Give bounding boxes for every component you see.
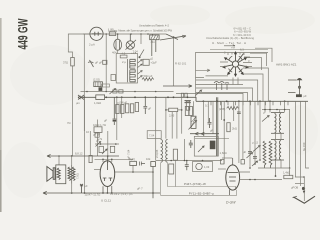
svg-text:1,05 geg. Masse, alle Spannung: 1,05 geg. Masse, alle Spannungen gem. n.… xyxy=(108,29,172,33)
capacitor dark dashes under bus xyxy=(185,101,191,103)
capacitor pair CL1 xyxy=(99,146,103,152)
resistor small right of V2 top xyxy=(241,160,245,165)
resistor R1 on top wire xyxy=(109,32,115,36)
resistor R19 zigzag xyxy=(227,106,239,109)
dense centre column x187-196 xyxy=(186,101,189,110)
wire main top H1 xyxy=(83,33,166,35)
capacitor C3 electrolytic blob xyxy=(296,94,302,97)
svg-text:37Ω: 37Ω xyxy=(63,61,68,65)
wire drops into tube xyxy=(103,156,112,162)
svg-text:µPOB: µPOB xyxy=(291,186,298,190)
wire x216.9 dark pair xyxy=(216,97,217,156)
wire x233.7 stub xyxy=(233,101,235,121)
wire left arrow y156 xyxy=(47,155,119,158)
capacitor C2 tilted xyxy=(88,60,94,67)
svg-text:µF: µF xyxy=(104,119,108,123)
wire x250 xyxy=(249,101,251,168)
coil L2 square bumps upper xyxy=(130,59,135,68)
svg-text:P447–(0743)–W: P447–(0743)–W xyxy=(184,182,206,186)
svg-text:4,5: 4,5 xyxy=(122,52,126,56)
resistor R2 hatched xyxy=(150,34,159,56)
svg-text:µF·7: µF·7 xyxy=(137,187,143,191)
svg-text:7,0Ω: 7,0Ω xyxy=(76,173,80,179)
paper mottling xyxy=(3,5,318,198)
wire pin stubs socket bottom xyxy=(233,78,238,85)
node dots above tube xyxy=(102,155,112,160)
svg-text:+2µF: +2µF xyxy=(151,61,158,65)
speaker LS cone xyxy=(47,167,55,182)
resistor R29 small on bus xyxy=(185,93,187,97)
svg-text:µF µF: µF µF xyxy=(95,61,102,65)
wire x238.9 xyxy=(238,101,240,163)
svg-text:µ(04)µF: µ(04)µF xyxy=(118,100,128,104)
wire x107.8 down xyxy=(107,131,109,163)
capacitor C17 on x238.9 xyxy=(237,112,241,114)
capacitor C11 xyxy=(185,161,189,170)
electrode symbols under socket xyxy=(214,82,229,91)
electrolytic blob C10 xyxy=(210,141,216,150)
switch S1 diagonals xyxy=(139,50,144,58)
capacitor C7 electrolytic xyxy=(80,184,83,193)
svg-text:2kΩ: 2kΩ xyxy=(232,127,237,131)
svg-text:2·µA: 2·µA xyxy=(89,43,95,47)
resistor small left of V2 top xyxy=(221,160,225,165)
svg-text:U CL11: U CL11 xyxy=(101,199,111,203)
svg-text:449 GW: 449 GW xyxy=(17,18,31,49)
wire y168 xyxy=(239,168,304,180)
junction dots right column xyxy=(249,159,290,177)
wire x203.4 xyxy=(202,101,204,136)
wire R3 down leg xyxy=(72,66,74,156)
resistor R18 small xyxy=(89,155,92,162)
wire vertical x84 xyxy=(83,34,85,97)
wire x213 xyxy=(212,101,214,133)
wire transformer to bus xyxy=(71,184,73,194)
field coil zigzag inside xyxy=(57,168,60,180)
wire x59 to speaker box xyxy=(58,156,60,165)
wire T3 secondary down xyxy=(276,160,282,176)
wire row y160 xyxy=(156,160,222,162)
trimmer arrows right column xyxy=(247,153,258,167)
zigzag R23 pair vertical xyxy=(263,141,272,168)
wire right frame x243 xyxy=(242,101,244,160)
wire V1 anode right xyxy=(115,166,153,173)
resistor R25 tiny on wire xyxy=(113,90,117,93)
wire underline arrow xyxy=(224,45,235,46)
wire x116.8 down xyxy=(116,97,118,140)
svg-text:2·µ: 2·µ xyxy=(122,60,126,64)
svg-text:D·GW: D·GW xyxy=(226,200,236,204)
transformer T4 windings xyxy=(68,167,71,181)
wire x304 down xyxy=(303,177,305,201)
wire x155.7 down xyxy=(155,97,157,160)
wire tick stubs below bus B xyxy=(211,101,288,105)
capacitor C6 xyxy=(208,118,212,128)
trimmer arrow in box xyxy=(198,146,204,152)
svg-text:(256): (256) xyxy=(219,107,225,111)
wire x193.5 xyxy=(193,101,195,116)
svg-text:AW1·BW1·AZ1: AW1·BW1·AZ1 xyxy=(276,63,297,67)
wire vertical x106 xyxy=(105,34,107,91)
svg-text:(2,02): (2,02) xyxy=(93,78,100,82)
wire x224 to tube xyxy=(223,160,225,164)
wire x172.2 down xyxy=(171,112,173,139)
capacitor C12 small box xyxy=(103,60,107,64)
junction y193 xyxy=(71,192,73,194)
node dots y144 xyxy=(100,143,117,145)
wire pin stubs module top xyxy=(228,53,244,56)
potentiometer P1 hatched xyxy=(189,116,197,129)
lamp symbol in B4 xyxy=(196,163,202,169)
capacitor CV1 crossed circle xyxy=(126,34,137,50)
main bus A xyxy=(80,97,196,101)
wire x176.9 down xyxy=(176,112,178,139)
resistor R30 small top xyxy=(120,55,127,58)
resistor R5 box xyxy=(143,59,149,65)
right vertical wires xyxy=(250,101,309,186)
svg-text:µF·7,04: µF·7,04 xyxy=(126,149,130,159)
junction dots on H1 xyxy=(105,33,148,35)
wire x84.3 down xyxy=(83,97,85,131)
resistor R20 box xyxy=(227,123,230,132)
page edge artifact xyxy=(0,18,2,212)
node dots R14 xyxy=(165,109,182,111)
resistor R7 box xyxy=(94,82,103,87)
svg-text:7Ω: 7Ω xyxy=(67,121,71,125)
resistor bank column verticals xyxy=(84,97,181,163)
wire arrow into module xyxy=(163,85,192,88)
resistor R24 horizontal xyxy=(284,175,293,178)
svg-text:µF: µF xyxy=(304,94,308,98)
wire nested corners right top xyxy=(246,48,272,70)
wire x295.5 right xyxy=(295,101,297,177)
wire row2 to tube pin xyxy=(161,163,237,195)
svg-text:µ 1,5: µ 1,5 xyxy=(252,141,259,145)
wire y49 upper xyxy=(210,49,268,51)
wire above tube V1 xyxy=(95,158,134,160)
resistor bank R9-R13 xyxy=(116,103,139,114)
svg-text:PY11–B2–D4B7–µ: PY11–B2–D4B7–µ xyxy=(189,191,214,195)
wire x168 down xyxy=(165,97,167,138)
junction dots mid wire xyxy=(86,91,156,93)
svg-text:µF: µF xyxy=(210,129,214,133)
junction dots y193 xyxy=(84,192,154,194)
coil L4 vertical bumps xyxy=(161,140,168,163)
resistor R21 xyxy=(173,149,177,160)
tube socket U1 star xyxy=(224,53,248,76)
node dot x59 xyxy=(58,155,60,157)
svg-text:1,6kΩ: 1,6kΩ xyxy=(220,151,227,155)
trimmer arrows mid-left xyxy=(96,142,101,147)
wire x121.7 down xyxy=(121,97,123,118)
wire x232 top lead xyxy=(222,157,232,159)
box component B4 xyxy=(193,162,213,172)
IF transformer T2 xyxy=(271,113,284,134)
wire V2 left grid xyxy=(218,168,226,170)
coil L3 square bumps lower xyxy=(130,70,135,82)
wire x300.5 right xyxy=(300,101,302,186)
wire R21 lead down xyxy=(174,160,176,186)
coil L1 oval xyxy=(114,34,122,50)
svg-text:U. Mall – Tel. Tel. A: U. Mall – Tel. Tel. A xyxy=(212,41,246,45)
wire circle to left vertical xyxy=(68,34,90,58)
svg-text:µF µF: µF µF xyxy=(93,133,100,137)
capacitor C16 bars xyxy=(140,162,146,166)
svg-text:4µ·150: 4µ·150 xyxy=(302,142,306,151)
svg-text:+1,5: +1,5 xyxy=(131,51,137,55)
pot wiper arrow xyxy=(110,89,116,95)
svg-text:0,1: 0,1 xyxy=(205,104,209,108)
trimmer arrow top centre xyxy=(196,90,202,96)
capacitor C15 on x255 xyxy=(253,157,257,159)
resistor small box left low xyxy=(111,75,116,81)
capacitor C4 xyxy=(143,97,147,114)
wire V1 grid left xyxy=(94,169,100,171)
wire verticals bottom tube V2 area xyxy=(222,101,243,164)
capacitor C5 xyxy=(113,97,117,125)
svg-text:41042·(04)·µF: 41042·(04)·µF xyxy=(110,192,133,196)
wire x270 xyxy=(269,101,271,112)
wire x284.6 xyxy=(284,101,286,112)
ground chassis V symbol xyxy=(293,196,316,203)
wire x208.3 xyxy=(207,101,209,122)
wire x184.5 xyxy=(184,139,186,160)
svg-text:µF: µF xyxy=(148,107,152,111)
main bus B xyxy=(196,100,308,102)
svg-text:6,3: 6,3 xyxy=(240,48,244,52)
svg-text:10kΩ 1,7Ω: 10kΩ 1,7Ω xyxy=(93,123,106,127)
svg-text:10: 10 xyxy=(86,130,89,134)
wire row1 to tube pin xyxy=(168,163,236,187)
svg-text:Umschalter und Tastenk. 4–2: Umschalter und Tastenk. 4–2 xyxy=(139,23,170,27)
resistor small box below R17 xyxy=(95,133,99,137)
wire arrow A1 to antenna node xyxy=(160,34,186,40)
trimmer arrows column xyxy=(138,60,142,79)
svg-text:R·62·101: R·62·101 xyxy=(175,62,187,66)
svg-text:µF: µF xyxy=(243,150,247,154)
capacitor C14 on x250 xyxy=(248,152,252,154)
wire y138.6 xyxy=(195,138,229,140)
svg-text:6⁴¹ 301–30 F.K: 6⁴¹ 301–30 F.K xyxy=(233,33,251,37)
node dot x224 xyxy=(223,119,225,121)
capacitor C8 with box xyxy=(130,161,137,165)
svg-text:Umschalterkontakte (1)–(6) – B: Umschalterkontakte (1)–(6) – Bezifferung xyxy=(206,36,255,40)
svg-text:1,4kΩ: 1,4kΩ xyxy=(283,171,290,175)
svg-text:1,03: 1,03 xyxy=(204,165,210,169)
resistor R22 xyxy=(169,164,174,174)
junction dots bus xyxy=(83,96,285,102)
svg-text:2,05: 2,05 xyxy=(169,114,175,118)
wire y144 short xyxy=(95,143,119,145)
tube V2 rectifier xyxy=(226,158,240,195)
tube G1 input circle xyxy=(90,27,103,40)
svg-text:4,7k: 4,7k xyxy=(97,137,103,141)
wire x260 xyxy=(259,101,261,160)
svg-text:50Ω µF: 50Ω µF xyxy=(144,74,153,78)
bus left end arrow xyxy=(78,95,84,100)
wire bottom bus y193 xyxy=(43,191,160,194)
junction on y156 xyxy=(71,155,73,157)
svg-text:11047–11,7Ω: 11047–11,7Ω xyxy=(85,192,101,196)
resistor R26 tiny on wire xyxy=(119,90,123,93)
wire R14 leads xyxy=(166,109,182,111)
wire mid horizontal y91 xyxy=(81,91,174,93)
wire x221.5 xyxy=(221,101,223,120)
tube V1 output xyxy=(100,161,115,193)
IF transformer T3 xyxy=(271,140,284,161)
trimmer arrow T2 xyxy=(262,116,269,122)
wire y109.5 with junctions xyxy=(262,109,290,111)
module box M1 xyxy=(196,53,269,98)
svg-text:µ2: µ2 xyxy=(150,57,154,61)
resistor pair R15 R16 xyxy=(185,107,188,116)
wire L-corners socket to bus xyxy=(196,68,268,101)
svg-text:8,8.12: 8,8.12 xyxy=(75,152,83,156)
wire L1 to T1 box xyxy=(117,50,119,53)
wire x71.7 to transformer xyxy=(71,156,73,165)
wire T2 to T3 links xyxy=(276,133,282,139)
antenna symbol right xyxy=(288,78,302,97)
verticals centre xyxy=(194,101,239,163)
svg-text:10k: 10k xyxy=(146,157,151,161)
wire x224.2 xyxy=(223,101,225,160)
resistor R6 zigzag horizontal xyxy=(142,78,154,81)
volume control box xyxy=(194,136,218,156)
capacitor C13 dark blob xyxy=(99,87,103,91)
node antenna junction xyxy=(173,36,175,38)
svg-text:7,04: 7,04 xyxy=(149,134,155,138)
resistor R17 box xyxy=(94,127,102,133)
wire x305.5 right xyxy=(306,101,310,168)
resistor R27 box above xyxy=(101,84,109,87)
wire y183.5 link xyxy=(295,183,305,185)
wire coil spine xyxy=(128,59,130,82)
arrowhead on ground wire xyxy=(303,191,306,194)
transformer box B5 xyxy=(147,131,161,139)
trimmer arrow T3 xyxy=(253,146,260,152)
wire bottom stub y133.5 xyxy=(190,132,219,135)
wire stubs into socket xyxy=(220,57,252,67)
svg-text:1,0kΩ: 1,0kΩ xyxy=(94,101,101,105)
svg-text:411: 411 xyxy=(151,40,156,44)
wire x90.3 down xyxy=(89,131,91,156)
resistor R3 on left vertical xyxy=(71,58,75,66)
wire vertical x84.5 lower xyxy=(84,97,86,193)
wire vertical x173.5 antenna drop xyxy=(173,37,175,86)
wire x279.7 xyxy=(279,110,281,113)
wire x255 xyxy=(254,101,256,164)
junction dots y160.5 xyxy=(170,160,203,162)
resistor R8 on bus xyxy=(96,95,105,100)
svg-text:µF: µF xyxy=(85,184,89,188)
wire x97.5 upper xyxy=(97,120,99,157)
capacitor C9 xyxy=(189,140,193,148)
output transformer box xyxy=(56,165,66,184)
resistor R28 small on bus xyxy=(181,93,183,97)
wire upper bus y93.5 xyxy=(176,93,243,101)
wire x289.6 xyxy=(289,110,291,169)
wire x181.7 down xyxy=(181,97,183,133)
component small right xyxy=(151,162,156,199)
wire tick x141 xyxy=(140,34,142,44)
IF transformer T1 box xyxy=(116,54,137,84)
resistor R14 horizontal xyxy=(169,108,178,111)
blob component xyxy=(302,187,305,190)
wire x265 xyxy=(264,101,266,112)
svg-text:2×0,05: 2×0,05 xyxy=(155,149,159,158)
capacitor pair CL2 xyxy=(110,146,114,152)
